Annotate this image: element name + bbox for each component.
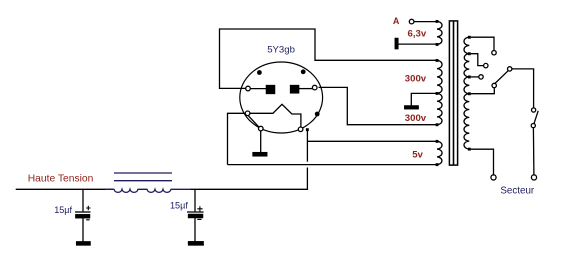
junction dots primary: [468, 36, 471, 151]
wire pin diagonal: [248, 116, 258, 127]
junction dot at tube cathode exit: [306, 128, 309, 131]
terminal tap1: [492, 51, 496, 55]
inductor L1 (choke): [105, 173, 191, 192]
ground (tube): [253, 153, 267, 156]
anode plate right: [291, 86, 299, 93]
wire primary tap2: [471, 54, 484, 66]
wire switch to secteur right terminal: [532, 128, 535, 175]
terminal secteur right: [531, 175, 536, 180]
winding 6.3v secondary: [437, 21, 442, 44]
anode plate left: [266, 86, 274, 94]
wire A terminal to 6.3v winding top: [414, 21, 436, 23]
svg-text:5v: 5v: [412, 149, 423, 160]
ground (C2): [189, 242, 204, 245]
ground bar (6.3v): [395, 38, 398, 48]
terminal tap3: [479, 75, 483, 79]
wire primary bottom to secteur left terminal: [471, 149, 494, 175]
winding 5v secondary: [437, 141, 442, 164]
winding 300v upper: [437, 60, 442, 93]
wire contact to switch: [512, 69, 534, 108]
svg-text:15µf: 15µf: [170, 201, 188, 211]
ground (C1): [77, 242, 91, 245]
wire primary tap3: [471, 76, 479, 78]
wire primary tap4 to selector pivot: [471, 88, 495, 94]
switch blade: [534, 111, 538, 124]
wire cathode vertical lower part to HT rail corner: [190, 168, 307, 190]
wire 6.3v ground to winding bottom: [398, 43, 436, 45]
unused pin dot top-left: [257, 70, 262, 75]
svg-text:Haute Tension: Haute Tension: [28, 174, 94, 185]
pin (filament right / cathode): [298, 127, 303, 132]
wire right plate to right pin: [299, 88, 313, 90]
wire plate1 net: tube left pin up over top to 300v winding top: [220, 29, 437, 88]
selector blade: [495, 71, 508, 84]
wire 5v winding bottom long run: [228, 164, 437, 166]
unused pin dot top-right: [301, 69, 306, 74]
ground bar (300v center tap): [405, 106, 419, 109]
transformer core: [449, 21, 457, 165]
svg-text:Secteur: Secteur: [500, 185, 535, 196]
wire 5v winding top to tube cathode vertical: [307, 140, 436, 142]
junction dots secondary: [436, 20, 439, 166]
pin (bottom left): [259, 126, 264, 131]
wire bottom-left pin to ground: [260, 131, 262, 153]
capacitor C2 15uf: [187, 189, 204, 241]
svg-text:15µf: 15µf: [54, 205, 72, 215]
svg-text:300v: 300v: [405, 73, 427, 84]
switch lower contact: [531, 124, 535, 128]
terminal secteur left: [491, 175, 496, 180]
switch upper contact: [532, 108, 536, 112]
wire primary tap1: [471, 37, 494, 50]
unused pin dot right: [315, 112, 320, 117]
svg-text:A: A: [393, 16, 400, 26]
wire left pin to left plate: [250, 88, 266, 90]
terminal A: [409, 19, 414, 24]
pin (plate2): [312, 85, 317, 90]
wire 300v center tap to ground: [411, 93, 436, 106]
wire tube bottom-right pin down (break at crossing): [306, 130, 308, 162]
pin (filament left): [245, 111, 250, 116]
filament: [250, 104, 301, 127]
svg-text:300v: 300v: [405, 113, 427, 124]
svg-text:6,3v: 6,3v: [408, 28, 427, 39]
pin (plate1): [246, 86, 251, 91]
svg-text:5Y3gb: 5Y3gb: [267, 44, 295, 55]
winding primary: [464, 37, 469, 149]
selector pivot: [492, 83, 496, 87]
winding 300v lower: [437, 93, 442, 124]
terminal tap2: [484, 63, 488, 67]
wire plate2 net: tube right pin to 300v winding bottom: [319, 87, 437, 124]
capacitor C1 15uf: [75, 189, 91, 242]
wire HT rail left segment: [16, 188, 113, 190]
wire tube left-middle pin loop: [228, 113, 246, 164]
tube 5Y3gb envelope: [240, 62, 323, 133]
selector contact: [508, 67, 512, 71]
